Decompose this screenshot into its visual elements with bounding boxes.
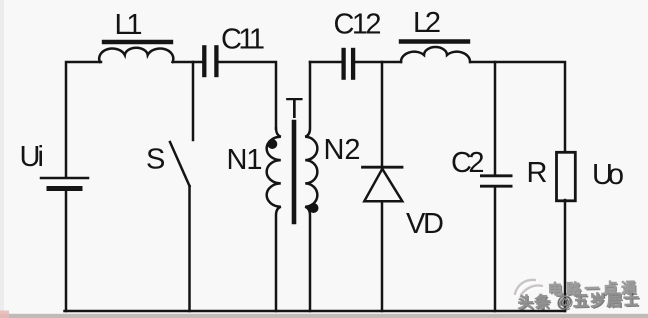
wire: right rail below R (564, 200, 567, 311)
wire: top rail from C11 to N1 lead, down to winding (219, 62, 277, 129)
svg-text:Ui: Ui (20, 141, 45, 173)
capacitor C11 right plate (214, 45, 218, 77)
wire: top rail from C12 to L2 with VD junction (355, 61, 401, 64)
wire: VD anode lead from top rail (381, 62, 384, 166)
diode VD cathode bar (363, 166, 403, 169)
capacitor C11 left plate (202, 45, 206, 77)
voltage source Ui (battery) short thick plate (49, 186, 80, 191)
capacitor C2 bottom plate (480, 185, 513, 188)
wire: C2 bottom lead (494, 188, 497, 312)
wire: bottom rail (65, 310, 566, 313)
watermark logo swirl (515, 280, 544, 297)
inductor L1 winding (99, 48, 173, 62)
svg-text:C12: C12 (334, 9, 382, 41)
diode VD triangle (364, 169, 402, 201)
wire: left rail bottom segment (65, 191, 68, 312)
wire: top rail from L2 to right corner, down to R (471, 62, 566, 151)
bottom-left pink smudge (0, 311, 9, 318)
inductor L2 core bar (401, 39, 468, 43)
transformer T core bar (292, 122, 297, 222)
svg-text:T: T (286, 93, 304, 125)
resistor R box (557, 152, 576, 201)
svg-text:VD: VD (406, 208, 444, 240)
voltage source Ui (battery) long plate (41, 177, 88, 180)
watermark text line 2: 头条@五岁居士 (518, 291, 641, 314)
transformer T secondary winding N2 with top lead (305, 62, 317, 311)
bottom gray strip (0, 314, 648, 318)
wire: left rail top segment + top-left rail (66, 62, 101, 177)
wire: C2 top lead from top rail (494, 62, 497, 175)
svg-text:C2: C2 (451, 147, 485, 179)
switch S blade (open) (170, 142, 190, 186)
svg-text:N2: N2 (324, 134, 361, 166)
transformer dot mark N1 (top of primary) (267, 139, 277, 149)
capacitor C12 right plate (351, 48, 355, 80)
svg-text:头条 @五岁居士: 头条 @五岁居士 (518, 291, 640, 312)
wire: VD cathode lead to bottom rail (381, 201, 384, 311)
svg-text:R: R (527, 157, 548, 189)
watermark text line 1: 电路一点通 (548, 280, 638, 300)
transformer T primary winding N1 (267, 129, 281, 312)
svg-text:N1: N1 (227, 144, 263, 176)
capacitor C12 left plate (341, 48, 345, 80)
svg-text:Uo: Uo (592, 159, 624, 191)
svg-text:L1: L1 (115, 9, 143, 41)
svg-text:S: S (146, 144, 165, 176)
wire: top rail from L1 to C11 (173, 61, 203, 64)
capacitor C2 top plate (480, 174, 513, 177)
inductor L1 core bar (104, 40, 171, 44)
svg-text:C11: C11 (221, 24, 265, 56)
left edge shading (0, 0, 4, 318)
switch S upper fixed lead (192, 62, 195, 140)
svg-text:L2: L2 (413, 7, 441, 39)
inductor L2 winding (401, 47, 470, 62)
wire: switch lower lead (188, 186, 191, 311)
wire: top rail from N2 lead to C12 (310, 61, 341, 64)
transformer dot mark N2 (bottom of secondary) (309, 203, 319, 213)
